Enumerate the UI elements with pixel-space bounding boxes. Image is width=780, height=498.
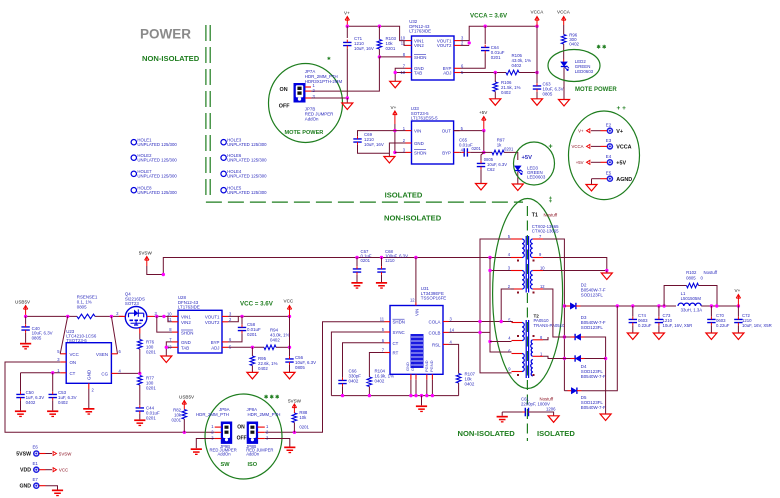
wire T1 pin12 row: [543, 289, 564, 337]
svg-text:BYP: BYP: [442, 150, 451, 155]
svg-text:VCC: VCC: [70, 352, 79, 357]
wire E5 to ground: [601, 178, 608, 180]
polarity dots T1: [517, 260, 535, 294]
svg-text:0402: 0402: [501, 90, 511, 95]
svg-text:VOUT2: VOUT2: [437, 43, 452, 48]
svg-text:B0540W-7-F: B0540W-7-F: [581, 374, 606, 379]
svg-text:NON-ISOLATED: NON-ISOLATED: [458, 429, 516, 438]
svg-text:AddOn: AddOn: [305, 117, 319, 122]
ground R95: [247, 372, 258, 379]
svg-text:0201: 0201: [504, 147, 514, 152]
boundary dashed horizontal: [206, 201, 523, 203]
wire VCCA to C63: [536, 26, 538, 72]
svg-text:T1: T1: [532, 213, 538, 219]
svg-text:0201: 0201: [472, 146, 482, 151]
svg-text:ISOLATED: ISOLATED: [537, 429, 575, 438]
pin stubs JP9A: [215, 426, 222, 428]
diode D5: [571, 388, 576, 394]
wire bus ground stub: [421, 396, 423, 406]
regulator U28 LT1763: [178, 310, 222, 353]
capacitor C44: [136, 408, 144, 411]
pin stubs U31 right: [443, 321, 449, 323]
svg-text:0402: 0402: [26, 400, 36, 405]
ground JP7/C71: [342, 103, 353, 110]
svg-text:V+: V+: [735, 288, 741, 293]
capacitor C72: [737, 306, 739, 317]
resistor R95: [251, 347, 253, 356]
svg-text:MOTE POWER: MOTE POWER: [285, 130, 324, 136]
svg-text:VCCA: VCCA: [531, 10, 545, 15]
capacitor C74: [632, 306, 634, 317]
wire T1 pin9 center tap: [543, 258, 607, 271]
svg-text:NON-ISOLATED: NON-ISOLATED: [142, 54, 200, 63]
jumper JP7A: [294, 84, 305, 103]
pin stubs U32 left: [406, 40, 412, 42]
wire U32 VOUT rail: [461, 26, 538, 40]
svg-text:VCCA = 3.6V: VCCA = 3.6V: [470, 13, 508, 20]
svg-text:VIN: VIN: [414, 129, 421, 134]
capacitor C65: [460, 151, 462, 153]
svg-text:UNPLATED 125/300: UNPLATED 125/300: [227, 174, 267, 179]
wire SHDN to jumper: [379, 56, 405, 58]
svg-text:HDR_2MM_PTH: HDR_2MM_PTH: [196, 412, 229, 417]
resistor R94: [264, 345, 276, 350]
svg-text:AddOn: AddOn: [246, 451, 260, 456]
svg-text:+5V: +5V: [522, 155, 533, 161]
ground U28: [161, 356, 172, 363]
svg-text:UNPLATED 125/300: UNPLATED 125/300: [137, 158, 177, 163]
mounting hole HOLE5: [221, 188, 226, 193]
wire U23 ON to jumper: [5, 362, 215, 432]
svg-text:10uF, 16V, X5R: 10uF, 16V, X5R: [742, 323, 772, 328]
node ADJ/R95 junction: [251, 346, 254, 349]
wire T1 pin7 to diodes: [543, 239, 564, 391]
resistor R105: [506, 70, 519, 75]
resistor R104: [367, 377, 372, 387]
mounting hole HOLE3: [221, 140, 226, 145]
svg-text:UNPLATED 125/300: UNPLATED 125/300: [137, 190, 177, 195]
svg-text:VCC = 3.6V: VCC = 3.6V: [240, 301, 274, 308]
node rail V+ junction: [737, 304, 740, 307]
wire U31 VIN: [415, 258, 417, 303]
mounting hole HOLE1: [131, 140, 136, 145]
resistor R96: [563, 25, 565, 35]
node D3 anode junction: [563, 335, 566, 338]
svg-text:L501505M: L501505M: [681, 296, 702, 301]
wire E2 to net arrow: [601, 130, 608, 132]
wire D3 row: [564, 336, 570, 338]
svg-text:0805: 0805: [295, 365, 305, 370]
svg-text:0201: 0201: [247, 332, 257, 337]
capacitor C70: [710, 306, 712, 317]
wire 5VSW feed: [147, 258, 511, 275]
svg-text:0201: 0201: [361, 258, 371, 263]
wire U28 VOUT rail: [228, 315, 290, 317]
wire BYP to R97: [484, 151, 492, 153]
svg-text:5VSW: 5VSW: [288, 398, 302, 403]
svg-text:0805: 0805: [543, 92, 553, 97]
node VCCA rail at C64: [484, 25, 487, 28]
svg-text:GND: GND: [19, 484, 31, 490]
svg-text:33uH, 1.3A: 33uH, 1.3A: [681, 308, 703, 313]
ground LED2: [559, 100, 570, 107]
node VOUT junction: [468, 41, 471, 44]
wire U31 RSL to R107: [449, 344, 459, 373]
wire E4 to net arrow: [601, 161, 608, 163]
svg-text:LT1763IDE: LT1763IDE: [409, 29, 431, 34]
svg-text:UNPLATED 125/300: UNPLATED 125/300: [227, 142, 267, 147]
wire V+ stem U33: [394, 124, 396, 152]
hot swap U23 LTC4210: [66, 343, 111, 384]
capacitor C73: [658, 306, 660, 317]
LED LED3: [515, 166, 521, 170]
svg-text:ON: ON: [237, 425, 245, 431]
wire U23 CG row: [118, 372, 140, 374]
svg-text:10: 10: [540, 266, 545, 271]
svg-text:0402: 0402: [375, 379, 385, 384]
capacitor C58: [241, 316, 243, 324]
mounting hole HOLE2: [131, 155, 136, 160]
svg-text:11: 11: [380, 317, 385, 322]
node D4 anode junction: [563, 357, 566, 360]
wire U33 VIN row: [395, 130, 406, 132]
ground JP9A: [191, 448, 202, 455]
svg-text:E2: E2: [606, 123, 612, 128]
boundary dashed double vertical: [206, 25, 210, 201]
op-amp U32 regulator LT1763: [412, 36, 455, 80]
ground C44: [134, 419, 145, 426]
svg-text:CT: CT: [393, 341, 399, 346]
node R104 bus junction: [368, 394, 371, 397]
wire U28 ADJ row: [228, 346, 264, 348]
svg-text:Nostuff: Nostuff: [544, 213, 558, 218]
ground C73: [653, 333, 664, 340]
wire U31 SHDN to jumper: [265, 322, 385, 433]
svg-text:12: 12: [410, 298, 415, 303]
svg-text:0201: 0201: [299, 425, 309, 430]
svg-text:POWER: POWER: [140, 27, 191, 42]
diode D4: [575, 355, 580, 361]
wire D4 row: [543, 356, 571, 358]
resistor RSENSE1: [77, 314, 95, 319]
svg-text:V+: V+: [616, 129, 623, 135]
svg-text:E6: E6: [33, 445, 39, 450]
svg-text:R102: R102: [686, 270, 697, 275]
wire U23 VSEN diagonal: [111, 316, 117, 353]
wire U32 GND/TAB to ground: [395, 68, 405, 81]
svg-text:ON: ON: [280, 87, 288, 93]
svg-text:USB5V: USB5V: [15, 300, 31, 305]
svg-text:COLA: COLA: [429, 320, 441, 325]
svg-text:ADJ: ADJ: [443, 71, 451, 76]
mounting hole HOLE6: [221, 155, 226, 160]
svg-text:SOD123FL: SOD123FL: [581, 293, 604, 298]
wire U23 VCC diagonal: [60, 316, 67, 353]
resistor R76: [139, 334, 141, 340]
svg-text:VCCA: VCCA: [557, 10, 571, 15]
svg-text:SHDN: SHDN: [414, 55, 426, 60]
wire USB5V rail: [26, 315, 77, 317]
ground U23: [83, 408, 94, 415]
svg-text:LED0603: LED0603: [527, 175, 546, 180]
node RSENSE left: [66, 315, 69, 318]
svg-text:✱ ✱ ✱: ✱ ✱ ✱: [264, 395, 280, 401]
svg-text:OFF: OFF: [237, 436, 247, 442]
svg-text:SYNC: SYNC: [393, 330, 405, 335]
capacitor C64: [484, 26, 486, 44]
node +5V junction: [482, 129, 485, 132]
LED LED2: [563, 60, 565, 63]
wire U31 COLB row: [449, 331, 491, 333]
svg-text:LED0603: LED0603: [575, 69, 594, 74]
regulator U33 LT1761: [412, 121, 454, 164]
wire U33 OUT row: [454, 130, 484, 132]
svg-text:ISO: ISO: [248, 462, 258, 468]
svg-text:BYP: BYP: [211, 340, 220, 345]
node C71 ground junction: [346, 96, 349, 99]
pin stubs U28 left: [172, 315, 178, 317]
svg-text:VIN: VIN: [415, 309, 420, 316]
node R105/C63 junction: [535, 71, 538, 74]
svg-text:GND: GND: [87, 369, 92, 380]
ground C63: [532, 99, 543, 106]
ground R106: [490, 99, 501, 106]
wire U32 ADJ row: [461, 72, 507, 74]
svg-text:TAB: TAB: [414, 71, 422, 76]
svg-text:LT1763IDE: LT1763IDE: [178, 305, 200, 310]
wire JP7 pin3 to ground: [311, 97, 347, 99]
node V+ junction at C71: [346, 25, 349, 28]
wire U31 COLA row: [449, 321, 513, 323]
ground LED3: [512, 184, 523, 191]
svg-text:0402: 0402: [258, 366, 268, 371]
wire U28 GND/TAB ground: [166, 342, 172, 356]
svg-text:UNPLATED 125/300: UNPLATED 125/300: [137, 142, 177, 147]
svg-text:AGND: AGND: [616, 177, 632, 183]
svg-text:VCCA: VCCA: [572, 144, 584, 149]
diode D2: [564, 305, 568, 307]
node R94/C56 junction: [288, 346, 291, 349]
svg-text:0201: 0201: [386, 46, 396, 51]
resistor R107: [456, 374, 461, 384]
node ADJ/R106 junction: [494, 71, 497, 74]
wire E3 to net arrow: [601, 145, 608, 147]
capacitor C71: [346, 26, 348, 38]
node rail C74 junction: [631, 304, 634, 307]
svg-text:SOD123FL: SOD123FL: [581, 325, 604, 330]
wire U33 GND to ground: [389, 143, 405, 157]
svg-text:AddOn: AddOn: [218, 451, 232, 456]
node COLA vertical junction: [478, 320, 481, 323]
ground C74: [627, 333, 638, 340]
svg-text:SHDN: SHDN: [393, 320, 405, 325]
svg-text:12: 12: [540, 284, 545, 289]
node U33 SHDN junction: [393, 151, 396, 154]
resistor R97: [492, 150, 504, 155]
pin stubs U31 bottom: [410, 374, 412, 379]
pin stubs T1 left: [511, 238, 522, 240]
node C58 junction: [240, 315, 243, 318]
svg-text:0201: 0201: [491, 55, 501, 60]
svg-text:5VSW: 5VSW: [139, 251, 153, 256]
svg-text:NON-ISOLATED: NON-ISOLATED: [384, 214, 442, 223]
svg-text:SW: SW: [221, 462, 231, 468]
ground C56: [284, 372, 295, 379]
pin stubs T2 right: [533, 339, 543, 341]
svg-text:0805: 0805: [77, 305, 87, 310]
wire U28 SHDN: [157, 316, 172, 332]
pin stubs Q4: [119, 315, 125, 317]
pin stubs U33: [406, 130, 412, 132]
jumper JP9A: [221, 422, 231, 443]
wire U31 ground bus: [410, 380, 412, 396]
svg-text:OUT: OUT: [442, 129, 452, 134]
svg-text:TAB: TAB: [181, 345, 189, 350]
capacitor C69: [358, 131, 395, 136]
svg-text:B0540W-7-F: B0540W-7-F: [581, 405, 606, 410]
node RSENSE right: [110, 315, 113, 318]
wire V+ top rail: [347, 26, 405, 40]
svg-text:C62: C62: [487, 167, 495, 172]
svg-text:0805: 0805: [686, 276, 696, 281]
svg-text:ISOLATED: ISOLATED: [385, 191, 423, 200]
ground C40: [20, 343, 31, 350]
svg-text:RSL: RSL: [432, 342, 441, 347]
node SHDN tap: [155, 315, 158, 318]
svg-text:E3: E3: [606, 138, 612, 143]
svg-text:0201: 0201: [146, 386, 156, 391]
svg-text:E5: E5: [606, 171, 612, 176]
node U31 VIN tap: [414, 256, 417, 259]
resistor R106: [494, 73, 496, 83]
svg-text:VOUT2: VOUT2: [205, 320, 220, 325]
node D4 cathode junction: [604, 357, 607, 360]
svg-text:0402: 0402: [569, 42, 579, 47]
diode D3: [575, 334, 580, 340]
node T1 pin3 junction: [488, 269, 491, 272]
ground diode bus: [600, 414, 611, 421]
wire U23 CT row: [21, 372, 61, 374]
wire T1 pin2 row: [501, 289, 514, 322]
node C66 bus junction: [341, 394, 344, 397]
svg-text:0402: 0402: [465, 382, 475, 387]
svg-text:UNPLATED 125/300: UNPLATED 125/300: [227, 190, 267, 195]
ground U31: [416, 405, 427, 412]
node rail L1 right: [710, 304, 713, 307]
svg-text:0402: 0402: [58, 400, 68, 405]
svg-text:HDR3X1PTH-2MM: HDR3X1PTH-2MM: [305, 79, 343, 84]
wire U32 VIN2 elbow: [404, 41, 406, 46]
capacitor C66: [338, 380, 346, 383]
wire U28 VIN2 elbow: [168, 316, 172, 321]
pin stubs U28 right: [222, 315, 228, 317]
svg-text:+5V: +5V: [576, 160, 584, 165]
wire D2 output rail: [581, 305, 677, 307]
ground U33: [384, 157, 395, 164]
wire C71 to ground: [346, 98, 348, 103]
resistor R82: [182, 410, 187, 420]
driver U31 LT3439: [390, 306, 443, 375]
svg-text:+5V: +5V: [479, 110, 488, 115]
svg-text:10: 10: [167, 311, 172, 316]
wire JP8A pin3 ground: [265, 439, 290, 447]
ground C70: [706, 333, 717, 340]
svg-text:0.22uF: 0.22uF: [638, 323, 652, 328]
wire Q4 to U28: [154, 315, 179, 317]
capacitor C56: [289, 347, 291, 356]
node C40 junction: [24, 315, 27, 318]
pin stubs JP8A: [258, 426, 265, 428]
wire JP9A pin3 ground: [196, 439, 214, 449]
pin stubs T1 right: [533, 238, 543, 240]
svg-text:E1: E1: [33, 461, 39, 466]
svg-text:10uF, 16V: 10uF, 16V: [354, 46, 374, 51]
svg-text:VCC: VCC: [59, 468, 68, 473]
ground C53: [47, 410, 58, 417]
ellipse MOTE POWER jumper circle: [269, 64, 343, 143]
svg-text:ON: ON: [70, 360, 77, 365]
capacitor C61: [502, 411, 524, 413]
node 5VSW elbow: [162, 273, 165, 276]
node R88 junction: [293, 431, 296, 434]
svg-text:UNPLATED 125/300: UNPLATED 125/300: [137, 174, 177, 179]
node COLA T junction: [500, 320, 503, 323]
svg-text:SOT23: SOT23: [125, 301, 139, 306]
wire D5 row: [564, 390, 567, 392]
ground T1 secondary: [601, 273, 612, 280]
pin stubs U23: [60, 353, 66, 355]
node VIN2 tap: [162, 315, 165, 318]
ground E7: [52, 490, 63, 497]
svg-text:RT: RT: [393, 351, 399, 356]
wire VCC to ADJ: [289, 316, 291, 347]
polarity dots T2: [517, 335, 535, 376]
wire U31 CT to C66: [343, 343, 385, 378]
svg-text:CG: CG: [101, 371, 108, 376]
svg-text:0402: 0402: [512, 63, 522, 68]
svg-text:V+: V+: [391, 105, 397, 110]
wire T2 pin8 row: [543, 337, 548, 340]
pin stubs T2 left: [512, 322, 523, 324]
svg-text:VIN1: VIN1: [181, 315, 191, 320]
wire U23 GND: [88, 389, 90, 408]
ellipse +5V LED circle: [514, 142, 555, 185]
ground JP8A: [284, 447, 295, 454]
capacitor C40: [25, 316, 27, 324]
svg-text:✱: ✱: [327, 56, 331, 61]
svg-text:SHDN: SHDN: [181, 331, 193, 336]
wire T1 pin3 row: [490, 270, 511, 272]
pin stubs JP7A: [305, 86, 311, 88]
node R82 junction: [183, 431, 186, 434]
svg-text:CTX02-13665: CTX02-13665: [532, 229, 559, 234]
node rail R102 junction left: [662, 304, 665, 307]
svg-text:GND: GND: [414, 141, 424, 146]
svg-text:Nostuff: Nostuff: [704, 270, 718, 275]
ground C50: [15, 410, 26, 417]
svg-text:+: +: [549, 144, 553, 151]
transistor Q4 MOSFET: [125, 307, 147, 329]
svg-text:MOTE POWER: MOTE POWER: [575, 87, 617, 93]
node C67 tap: [355, 256, 358, 259]
svg-text:OFF: OFF: [279, 104, 290, 110]
node VCC junction: [288, 315, 291, 318]
svg-text:SHDN: SHDN: [414, 150, 426, 155]
svg-text:5VSW: 5VSW: [59, 451, 72, 456]
resistor R88: [292, 413, 297, 423]
capacitor C50: [20, 373, 22, 392]
ellipse MOTE POWER LED: [548, 50, 600, 82]
